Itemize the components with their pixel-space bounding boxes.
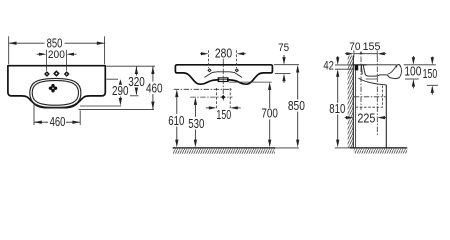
deck top extension left: [335, 64, 353, 66]
basin plan outline: [8, 66, 105, 108]
svg-text:460: 460: [50, 115, 66, 129]
siphon clearance dashed left: [215, 88, 217, 108]
svg-text:75: 75: [278, 42, 289, 54]
dim 100 arrow bottom: [412, 79, 415, 88]
fixing hole left: [207, 68, 211, 72]
dim 810 arrow top: [336, 69, 339, 77]
dim 280 extension dashed right: [236, 50, 238, 68]
drain point diamond marker: [221, 95, 225, 99]
front bottom extension line: [405, 78, 419, 80]
rim top extension right side: [404, 64, 436, 66]
front face: [400, 66, 402, 77]
svg-text:150: 150: [423, 67, 438, 81]
dim 280 arrow left outside: [200, 52, 209, 55]
rim plane line across: [353, 64, 396, 66]
dim 810 arrow bottom: [336, 140, 339, 148]
dim 150 arrow left outside: [206, 106, 217, 109]
dim 200 arrow left outside: [37, 53, 47, 56]
dim 850 arrow right: [97, 42, 105, 45]
hidden shelf dashed bottom: [356, 106, 383, 108]
tap hole left: [44, 71, 50, 77]
dim 225 arrow left outside: [345, 116, 354, 119]
drain box: [218, 77, 229, 82]
svg-text:100: 100: [404, 64, 421, 78]
svg-text:530: 530: [188, 117, 204, 131]
front flat edge extension tick: [130, 95, 139, 97]
dim 320 arrow top: [135, 66, 138, 74]
ground line middle: [173, 147, 276, 149]
oval top extension line: [107, 78, 119, 80]
dim 150 right arrow bottom: [431, 85, 434, 94]
svg-text:150: 150: [216, 108, 231, 122]
dim 460 bottom extension left: [33, 104, 35, 125]
svg-text:70: 70: [349, 41, 360, 53]
mid tick arrow up: [360, 51, 363, 55]
oval basin outer rim: [30, 78, 81, 107]
dim 290 arrow top: [119, 79, 122, 85]
front rim hump: [396, 65, 400, 68]
deck underside extension left: [335, 68, 353, 70]
ground hatch middle: [173, 149, 275, 154]
pedestal left edge: [355, 71, 357, 148]
dim 200 extension line right: [65, 50, 67, 71]
overflow level centerline 610: [174, 88, 232, 90]
dim 280 extension dashed left: [208, 50, 210, 68]
deck top surface line: [353, 64, 366, 66]
drain level centerline 530: [190, 96, 232, 98]
dim 460 vertical line: [152, 66, 154, 109]
svg-text:200: 200: [48, 49, 65, 61]
drain box bottom extension line: [229, 81, 272, 83]
svg-text:850: 850: [288, 99, 305, 113]
dim 850 mid arrow bottom: [296, 140, 299, 148]
inner back contour: [205, 72, 243, 78]
ground extension left for 810: [335, 147, 350, 149]
ground line middle thin extension: [275, 147, 299, 149]
bowl section wall and bottom: [363, 65, 399, 78]
dim 320 line: [135, 66, 137, 94]
dim 850 arrow left: [9, 42, 17, 45]
dim 530 arrow bottom: [194, 140, 197, 148]
siphon clearance dashed right: [229, 88, 231, 108]
dim 460 bottom extension right: [79, 111, 81, 126]
dim 700 line: [269, 90, 271, 141]
dim 610 arrow bottom: [175, 140, 178, 148]
dim 200 arrow right outside: [66, 53, 76, 56]
rim bottom extension right: [275, 73, 291, 75]
dim 150 right arrow top: [431, 57, 434, 65]
dim 290 arrow bottom: [119, 98, 122, 106]
basin front outline: [175, 65, 272, 84]
dim 70 arrow left outside: [345, 52, 354, 55]
svg-text:700: 700: [261, 106, 278, 120]
dim 70 155 ticks: [354, 50, 377, 57]
dim 530 line: [194, 105, 196, 141]
drain level centerline side: [354, 96, 386, 98]
svg-text:460: 460: [146, 82, 163, 96]
dim 850 line: [9, 42, 105, 44]
svg-text:810: 810: [329, 102, 345, 116]
drain centerline: [376, 57, 378, 136]
svg-text:290: 290: [112, 84, 129, 98]
svg-text:42: 42: [323, 60, 334, 72]
dim 850 extension line left: [8, 36, 10, 64]
tap funnel left leg: [360, 65, 363, 74]
tap hole right: [64, 71, 70, 77]
dim 810 line: [337, 76, 339, 140]
dim 75 arrow bottom outside: [282, 74, 285, 83]
oval basin inner rim: [32, 81, 78, 106]
dim line 70-155: [354, 53, 377, 55]
dim 850 extension line right: [104, 36, 106, 64]
dim 42 arrow down: [336, 56, 339, 65]
svg-text:610: 610: [168, 114, 184, 128]
dim 530 arrow top: [194, 97, 197, 105]
dim 320 arrow bottom: [135, 88, 138, 96]
dim 280 arrow right outside: [237, 52, 246, 55]
svg-text:320: 320: [128, 75, 145, 89]
deck back bar section: [355, 65, 359, 70]
dim 460 bottom arrow right: [72, 121, 80, 124]
dim 460 vertical arrow bottom: [151, 102, 154, 110]
dim 225 arrow right outside: [377, 116, 386, 119]
hidden shelf dashed right: [382, 86, 384, 108]
dim 155 arrow right outside: [377, 52, 386, 55]
siphon cover right edge: [385, 85, 387, 148]
bulge bottom extension line: [79, 108, 155, 110]
rim top extension right: [274, 64, 299, 66]
outer shell underside: [359, 78, 387, 85]
wall hatch: [348, 56, 353, 148]
ground line side: [350, 147, 407, 149]
svg-text:155: 155: [363, 41, 381, 53]
oval bottom extension line: [80, 105, 121, 107]
top edge extension to the right: [107, 65, 156, 67]
bowl interior front rise: [388, 66, 397, 75]
fixing hole right: [235, 68, 239, 72]
svg-text:225: 225: [357, 111, 375, 125]
dim 610 line: [176, 97, 178, 141]
dim 200 extension line left: [46, 50, 48, 71]
dim 850 mid line: [297, 72, 299, 140]
tap hole center: [53, 70, 60, 77]
drain flower: [49, 84, 58, 93]
bolt centerline: [360, 57, 362, 111]
dim 700 arrow top: [268, 82, 271, 90]
dim 100 arrow top: [412, 56, 415, 65]
wall line: [352, 56, 354, 148]
dim 460 vertical arrow top: [151, 66, 154, 74]
bowl underside parallel line: [366, 78, 378, 80]
dim 290 line lower part: [119, 97, 121, 99]
center line vertical: [222, 59, 224, 101]
dim 460 bottom arrow left: [34, 121, 42, 124]
underside extension line: [427, 84, 438, 86]
ground hatch side: [354, 149, 407, 154]
dim 75 arrow top outside: [282, 55, 285, 65]
dim 610 arrow top: [175, 89, 178, 97]
dim 460 bottom line: [34, 121, 80, 123]
dim 850 mid arrow top: [296, 65, 299, 73]
dim 700 arrow bottom: [268, 140, 271, 148]
dim 150 arrow right outside: [230, 106, 241, 109]
